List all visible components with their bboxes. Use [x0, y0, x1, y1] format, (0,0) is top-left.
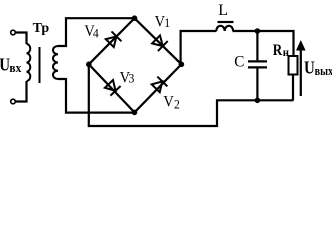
- svg-text:Тр: Тр: [33, 21, 50, 36]
- svg-text:3: 3: [129, 71, 135, 86]
- svg-text:4: 4: [93, 26, 99, 41]
- svg-text:U: U: [0, 54, 10, 75]
- svg-text:н: н: [283, 47, 290, 60]
- svg-text:вх: вх: [9, 60, 22, 75]
- svg-text:2: 2: [174, 97, 180, 112]
- svg-text:L: L: [218, 2, 228, 19]
- svg-text:V: V: [163, 93, 173, 111]
- svg-text:U: U: [304, 57, 315, 78]
- svg-text:R: R: [273, 42, 283, 59]
- svg-text:C: C: [234, 53, 244, 70]
- svg-text:1: 1: [164, 16, 170, 31]
- svg-text:вых: вых: [315, 64, 332, 78]
